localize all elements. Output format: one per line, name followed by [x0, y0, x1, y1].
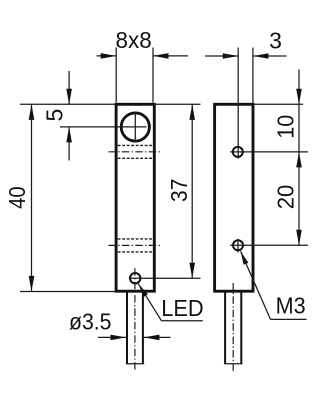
svg-text:ø3.5: ø3.5 [69, 309, 112, 335]
svg-text:LED: LED [161, 295, 204, 321]
svg-text:3: 3 [269, 28, 282, 54]
svg-text:10: 10 [273, 115, 299, 139]
svg-text:8x8: 8x8 [116, 27, 152, 53]
svg-text:37: 37 [166, 179, 192, 202]
svg-text:5: 5 [41, 109, 67, 122]
svg-text:20: 20 [273, 185, 299, 210]
svg-text:M3: M3 [276, 293, 306, 319]
svg-text:40: 40 [4, 186, 30, 209]
